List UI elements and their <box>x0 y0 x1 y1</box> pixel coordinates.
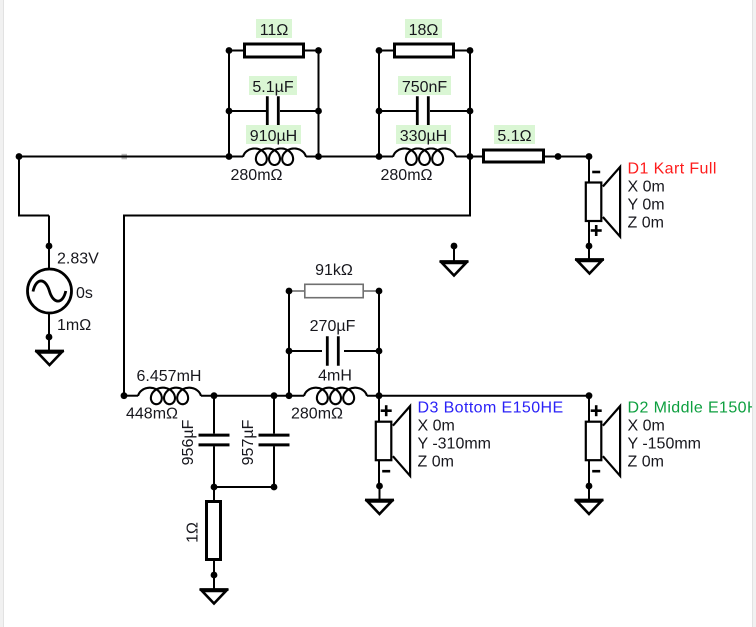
svg-text:448mΩ: 448mΩ <box>126 406 178 423</box>
wire LF bus a <box>124 395 138 397</box>
resistor R1 11ohm <box>245 44 304 57</box>
junction source top <box>46 243 53 250</box>
ground under D2 <box>575 499 604 502</box>
right window gutter <box>753 0 756 627</box>
wire D3 gnd stem <box>379 486 381 500</box>
speaker D3 Bottom E150HE <box>376 422 392 461</box>
wire R1 left lead <box>229 50 245 52</box>
wire C5 right lead <box>344 350 379 352</box>
svg-text:D3 Bottom E150HE: D3 Bottom E150HE <box>418 400 564 417</box>
junction RC left <box>286 392 293 399</box>
svg-text:Y -310mm: Y -310mm <box>418 436 492 453</box>
svg-text:956µF: 956µF <box>180 419 197 465</box>
junction L1 left <box>226 153 233 160</box>
wire cap join <box>214 486 274 488</box>
junction C4 top <box>271 392 278 399</box>
wire R2 left rail <box>378 51 380 157</box>
svg-text:910µH: 910µH <box>250 128 297 145</box>
ground floating <box>440 260 469 263</box>
wire D1 bottom lead <box>588 219 590 246</box>
junction C1 right <box>315 108 322 115</box>
svg-text:280mΩ: 280mΩ <box>231 167 283 184</box>
junction L2 right <box>467 153 474 160</box>
voltage source V1 <box>28 269 72 313</box>
left window gutter <box>0 0 3 627</box>
wire D3 bottom lead <box>378 459 380 486</box>
wire R2 right rail <box>469 51 471 157</box>
wire top bus a <box>19 156 243 158</box>
svg-text:4mH: 4mH <box>318 368 352 385</box>
svg-text:1Ω: 1Ω <box>185 522 202 543</box>
wire top bus c <box>456 156 482 158</box>
junction L2 left <box>376 153 383 160</box>
wire R1 right lead <box>304 50 319 52</box>
wire R4 right lead <box>363 290 379 292</box>
wire R5 gnd stem <box>213 575 215 590</box>
inductor L3 6.457mH <box>138 388 201 405</box>
wire R4 left lead <box>289 290 305 292</box>
svg-text:270µF: 270µF <box>310 318 356 335</box>
svg-text:Z 0m: Z 0m <box>628 454 664 471</box>
svg-text:Y 0m: Y 0m <box>628 197 665 214</box>
wire drop to LF section <box>123 216 125 397</box>
ground under D1 <box>575 258 604 261</box>
wire D1 top lead <box>588 157 590 184</box>
wire D1 gnd stem <box>588 246 590 260</box>
svg-text:D2 Middle E150H: D2 Middle E150H <box>628 400 756 417</box>
wire C5 left lead <box>289 350 322 352</box>
label R3 value 5.1ohm <box>494 125 535 144</box>
wire source top lead <box>48 216 50 271</box>
svg-text:Z 0m: Z 0m <box>628 215 664 232</box>
junction R1 left <box>226 47 233 54</box>
junction C2 left <box>376 108 383 115</box>
label L1 value 910uH <box>246 125 301 144</box>
svg-text:0s: 0s <box>76 285 93 302</box>
svg-text:18Ω: 18Ω <box>409 22 439 39</box>
junction D2 top <box>586 392 593 399</box>
speaker D1 Kart Full <box>586 183 602 222</box>
ground under D3 <box>365 499 394 502</box>
wire C2 left lead <box>379 110 416 112</box>
wire D2 bottom lead <box>588 459 590 486</box>
wire top bus d <box>545 156 589 158</box>
svg-text:11Ω: 11Ω <box>260 22 289 39</box>
junction D3 bottom <box>376 483 383 490</box>
label C2 value 750nF <box>398 76 451 95</box>
junction C3 C4 join left <box>211 484 218 491</box>
junction D2 bottom <box>586 483 593 490</box>
junction L1 right <box>315 153 322 160</box>
wire source bottom lead <box>48 312 50 351</box>
capacitor C1 5.1uF <box>266 96 269 126</box>
wire L2 rail lower <box>469 157 471 216</box>
junction LF corner <box>121 392 128 399</box>
inductor L1 910uH <box>243 149 306 166</box>
wire R1 right rail <box>318 51 320 157</box>
label R2 value 18ohm <box>405 19 442 38</box>
resistor R3 5.1ohm <box>484 150 544 162</box>
capacitor C5 270uF <box>326 336 329 366</box>
node A <box>16 153 23 160</box>
junction D1 corner <box>586 153 593 160</box>
wire R1 left rail <box>228 51 230 157</box>
wire C3 bottom lead <box>213 446 215 487</box>
junction C3 C4 join right <box>271 484 278 491</box>
wire LF bus b <box>201 395 304 397</box>
label R1 value 11ohm <box>256 19 292 38</box>
wire C1 right lead <box>280 110 319 112</box>
svg-text:2.83V: 2.83V <box>57 251 99 268</box>
svg-text:6.457mH: 6.457mH <box>137 368 202 385</box>
wire R2 right lead <box>454 50 471 52</box>
junction C1 left <box>226 108 233 115</box>
wire RC right leg <box>378 291 380 396</box>
resistor R2 18ohm <box>395 44 454 57</box>
svg-text:Y -150mm: Y -150mm <box>628 436 702 453</box>
wire C4 top lead <box>273 396 275 434</box>
ground under source <box>35 350 64 353</box>
ground under R5 1ohm <box>200 588 229 591</box>
label L2 value 330uH <box>396 125 451 144</box>
svg-text:1mΩ: 1mΩ <box>57 317 91 334</box>
speaker D2 Middle E150HE <box>586 422 602 461</box>
wire return bus <box>123 215 471 217</box>
junction R5 bottom <box>211 572 218 579</box>
wire D3 top lead <box>378 396 380 422</box>
junction float gnd <box>451 243 458 250</box>
wire RC left leg <box>288 291 290 396</box>
junction D1 bottom <box>586 243 593 250</box>
wire R5 bottom lead <box>213 560 215 575</box>
junction R3 out <box>555 153 562 160</box>
wire LF bus c <box>367 395 589 397</box>
junction C2 right <box>467 108 474 115</box>
wire C4 bottom lead <box>273 446 275 487</box>
wire R5 top lead <box>213 487 215 501</box>
label C1 value 5.1uF <box>249 76 297 95</box>
resistor R5 1ohm <box>207 502 221 560</box>
junction R1 right <box>315 47 322 54</box>
junction C5 right <box>376 348 383 355</box>
junction R4 left <box>286 288 293 295</box>
wire float gnd stem <box>453 246 455 262</box>
junction R4 right <box>376 288 383 295</box>
wire C2 right lead <box>430 110 470 112</box>
junction source bottom <box>46 334 53 341</box>
svg-text:5.1Ω: 5.1Ω <box>497 128 531 145</box>
junction R2 left <box>376 47 383 54</box>
wire C3 top lead <box>213 396 215 434</box>
capacitor C4 957uF <box>259 434 290 437</box>
wire node A drop <box>18 157 20 216</box>
svg-text:280mΩ: 280mΩ <box>381 167 433 184</box>
wire jog to source <box>18 215 49 217</box>
resistor R4 91kohm <box>305 284 363 297</box>
wire C1 left lead <box>229 110 266 112</box>
svg-text:X 0m: X 0m <box>418 418 455 435</box>
svg-text:280mΩ: 280mΩ <box>291 406 343 423</box>
wire R2 left lead <box>379 50 395 52</box>
svg-text:91kΩ: 91kΩ <box>315 262 353 279</box>
junction R2 right <box>467 47 474 54</box>
net segment marker <box>122 154 128 160</box>
junction D3 top <box>376 392 383 399</box>
capacitor C2 750nF <box>416 96 419 126</box>
wire D2 top lead <box>588 396 590 422</box>
junction C5 left <box>286 348 293 355</box>
inductor L4 4mH <box>304 388 367 405</box>
svg-text:330µH: 330µH <box>400 128 447 145</box>
svg-text:5.1µF: 5.1µF <box>252 79 293 96</box>
svg-text:750nF: 750nF <box>402 79 448 96</box>
wire top bus b <box>306 156 393 158</box>
svg-text:D1 Kart Full: D1 Kart Full <box>628 161 717 178</box>
svg-text:Z 0m: Z 0m <box>418 454 454 471</box>
wire D2 gnd stem <box>588 486 590 500</box>
junction C3 top <box>211 392 218 399</box>
inductor L2 330uH <box>393 149 456 166</box>
svg-text:X 0m: X 0m <box>628 179 665 196</box>
svg-text:X 0m: X 0m <box>628 418 665 435</box>
svg-text:957µF: 957µF <box>240 419 257 465</box>
capacitor C3 956uF <box>199 434 230 437</box>
